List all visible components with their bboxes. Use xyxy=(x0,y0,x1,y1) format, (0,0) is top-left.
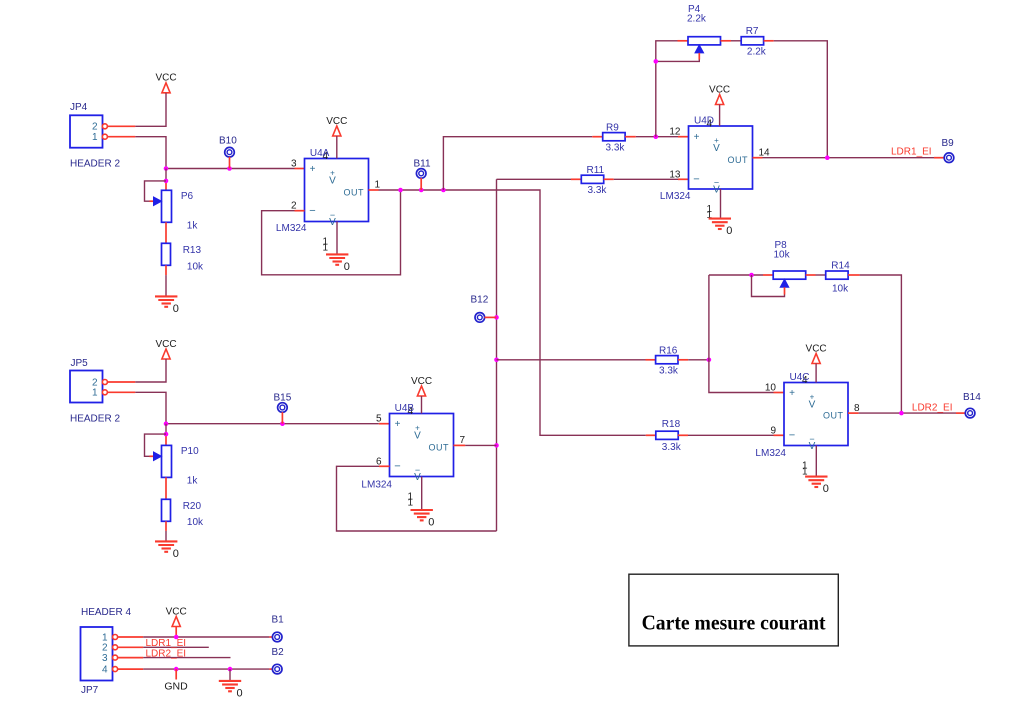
resistor R7 2.2k xyxy=(741,26,767,58)
wire U4B V- to ground xyxy=(421,477,423,511)
svg-text:VCC: VCC xyxy=(411,376,432,387)
svg-text:3: 3 xyxy=(291,159,297,170)
power VCC (JP5) xyxy=(155,339,176,359)
wire P8 wiper xyxy=(752,275,785,297)
svg-text:JP7: JP7 xyxy=(81,685,99,696)
wire JP5 pin2 to VCC xyxy=(107,359,166,382)
power VCC (JP4) xyxy=(155,73,176,93)
wire P10 wiper loop xyxy=(145,434,167,456)
ground 0 (JP7) xyxy=(219,681,243,700)
svg-text:B10: B10 xyxy=(219,135,237,146)
svg-text:R11: R11 xyxy=(587,165,605,176)
svg-text:+: + xyxy=(395,419,401,430)
svg-text:U4C: U4C xyxy=(790,372,810,383)
svg-text:LM324: LM324 xyxy=(660,191,691,202)
wire JP7 pin1 to B1 xyxy=(118,636,273,638)
junction U4A out / B11 xyxy=(419,188,424,193)
wire P10 to R20 xyxy=(165,477,167,499)
svg-text:3.3k: 3.3k xyxy=(606,143,626,154)
svg-text:U4A: U4A xyxy=(310,148,330,159)
connector JP4 (HEADER 2) xyxy=(70,102,120,169)
wire JP4 pin1 to node xyxy=(107,137,166,169)
wire node to P10 top xyxy=(165,424,167,446)
wire U4C V- to ground xyxy=(815,446,817,477)
resistor R11 3.3k xyxy=(581,165,607,196)
junction U4A out / R9 riser xyxy=(441,188,446,193)
wire main node to U4B pin5 xyxy=(166,423,390,425)
wire U4C output to B14 xyxy=(848,412,965,414)
svg-text:V: V xyxy=(414,472,421,483)
wire P6 to R13 xyxy=(165,222,167,243)
svg-text:V: V xyxy=(329,217,336,228)
resistor R14 10k xyxy=(826,261,850,295)
op-amp U4A LM324 xyxy=(276,148,381,253)
svg-text:LM324: LM324 xyxy=(276,223,307,234)
svg-text:−: − xyxy=(309,205,315,217)
svg-text:3.3k: 3.3k xyxy=(659,365,679,376)
junction ground symbol xyxy=(228,667,233,672)
resistor R16 3.3k xyxy=(656,345,679,376)
potentiometer P8 10k xyxy=(773,240,806,287)
svg-text:B15: B15 xyxy=(274,392,292,403)
svg-text:VCC: VCC xyxy=(326,116,347,127)
wire JP4 pin2 to VCC xyxy=(107,93,166,126)
svg-text:0: 0 xyxy=(726,225,732,237)
power VCC (U4D) xyxy=(709,84,730,104)
svg-text:OUT: OUT xyxy=(429,443,450,453)
svg-text:LDR1_EI: LDR1_EI xyxy=(891,146,932,157)
connector JP5 (HEADER 2) xyxy=(70,358,120,424)
wire VCC to U4B V+ xyxy=(421,396,423,414)
wire U4B output xyxy=(454,444,497,446)
connector JP7 (HEADER 4) xyxy=(81,607,132,696)
wire R14 to U4C output node xyxy=(848,275,901,413)
svg-text:0: 0 xyxy=(173,548,179,560)
svg-text:B1: B1 xyxy=(272,614,285,625)
ground 0 below U4D xyxy=(709,219,733,238)
svg-text:1: 1 xyxy=(375,180,381,191)
junction P4 wiper tap xyxy=(654,59,659,64)
net label LDR1_EI (JP7) xyxy=(146,638,187,649)
wire VCC to U4C V+ xyxy=(815,364,817,383)
svg-text:0: 0 xyxy=(428,517,434,529)
port B10 xyxy=(219,135,237,168)
wire riser to R9 xyxy=(443,137,602,190)
wire branch to U4C pin10 xyxy=(709,275,784,393)
svg-text:R13: R13 xyxy=(183,245,202,256)
svg-text:LDR2_EI: LDR2_EI xyxy=(912,403,953,414)
svg-text:VCC: VCC xyxy=(155,73,176,84)
wire R20 to ground xyxy=(165,521,167,541)
svg-text:V: V xyxy=(809,441,816,452)
svg-text:R14: R14 xyxy=(831,261,850,272)
svg-text:B12: B12 xyxy=(471,294,489,305)
wire R16 to U4C branch xyxy=(678,359,709,361)
junction P6 wiper tap xyxy=(164,179,169,184)
resistor R9 3.3k xyxy=(603,122,626,153)
svg-text:4: 4 xyxy=(102,664,108,675)
svg-text:V: V xyxy=(713,185,720,196)
wire node to P6 top xyxy=(165,169,167,191)
svg-text:8: 8 xyxy=(854,403,860,414)
wire R9 to U4D pin12 xyxy=(625,136,688,138)
svg-text:B2: B2 xyxy=(272,647,285,658)
svg-text:+: + xyxy=(789,388,795,399)
wire to U4D pin13 xyxy=(497,178,582,180)
wire R18 to U4C pin9 (drawn with U4A output net) xyxy=(678,434,784,436)
svg-text:3.3k: 3.3k xyxy=(662,442,682,453)
wire R7 to U4D output node xyxy=(764,41,828,158)
svg-text:2.2k: 2.2k xyxy=(687,14,707,25)
resistor R18 3.3k xyxy=(656,419,682,453)
svg-text:0: 0 xyxy=(344,261,350,273)
svg-text:5: 5 xyxy=(376,414,382,425)
wire VCC to U4D V+ xyxy=(719,105,721,127)
svg-text:VCC: VCC xyxy=(709,84,730,95)
wire U4A feedback pin2 loop xyxy=(262,190,401,275)
svg-text:LDR1_EI: LDR1_EI xyxy=(146,638,187,649)
svg-text:LM324: LM324 xyxy=(755,448,786,459)
svg-text:1: 1 xyxy=(92,388,98,399)
svg-text:1k: 1k xyxy=(187,220,199,231)
svg-text:+: + xyxy=(694,132,700,143)
svg-text:HEADER 4: HEADER 4 xyxy=(81,607,131,618)
svg-text:−: − xyxy=(693,174,699,186)
ground 0 below U4C xyxy=(805,477,829,496)
svg-text:B14: B14 xyxy=(963,392,981,403)
svg-text:R16: R16 xyxy=(659,345,678,356)
port B14 xyxy=(963,392,981,418)
ground 0 below R20 xyxy=(155,541,179,560)
svg-text:−: − xyxy=(789,430,795,442)
svg-text:1: 1 xyxy=(407,498,413,509)
svg-text:LM324: LM324 xyxy=(361,480,392,491)
wire to R16 xyxy=(497,359,656,361)
junction P10 wiper tap xyxy=(164,432,169,437)
svg-text:−: − xyxy=(394,461,400,473)
wire center bus (U4B out to R11/R16/B12) xyxy=(496,179,498,531)
potentiometer P10 1k xyxy=(154,445,200,486)
port B15 xyxy=(274,392,292,423)
wire JP7 pin4 to B2 xyxy=(118,668,273,670)
op-amp U4C LM324 xyxy=(755,372,860,477)
ground 0 below R13 xyxy=(155,296,179,315)
svg-text:R9: R9 xyxy=(606,122,619,133)
wire JP7 pin3 (LDR2_EI) xyxy=(118,657,231,659)
title box Carte mesure courant xyxy=(629,574,838,646)
junction R16 branch xyxy=(494,358,499,363)
svg-text:HEADER 2: HEADER 2 xyxy=(70,414,120,425)
svg-text:VCC: VCC xyxy=(155,339,176,350)
wire VCC to U4A V+ xyxy=(336,136,338,159)
svg-text:B11: B11 xyxy=(414,158,431,169)
junction at JP5/P10 node xyxy=(164,421,169,426)
svg-text:OUT: OUT xyxy=(728,155,749,165)
op-amp U4B LM324 xyxy=(361,403,465,509)
junction B12 xyxy=(494,315,499,320)
svg-text:P6: P6 xyxy=(181,191,194,202)
port B2 xyxy=(272,647,285,674)
junction U4D out / R7 xyxy=(825,155,830,160)
port B9 xyxy=(942,138,955,162)
svg-text:12: 12 xyxy=(669,127,681,138)
junction P8 wiper tap xyxy=(749,273,754,278)
svg-text:B9: B9 xyxy=(942,138,955,149)
svg-text:2.2k: 2.2k xyxy=(747,46,767,57)
svg-text:V: V xyxy=(414,431,421,442)
power VCC (JP7) xyxy=(166,606,187,626)
svg-text:VCC: VCC xyxy=(166,606,187,617)
op-amp U4D LM324 xyxy=(660,116,770,221)
wire JP7 pin2 (LDR1_EI) xyxy=(118,646,209,648)
resistor R20 10k xyxy=(162,499,205,528)
svg-text:10k: 10k xyxy=(832,284,849,295)
svg-text:10k: 10k xyxy=(187,517,204,528)
svg-text:LDR2_EI: LDR2_EI xyxy=(146,648,187,659)
potentiometer P4 2.2k xyxy=(687,4,721,53)
wire U4B feedback pin6 loop xyxy=(337,466,497,531)
svg-text:3.3k: 3.3k xyxy=(588,185,608,196)
svg-text:R7: R7 xyxy=(746,26,759,37)
svg-text:7: 7 xyxy=(460,435,466,446)
svg-text:U4D: U4D xyxy=(694,116,714,127)
resistor R13 10k xyxy=(162,243,205,272)
svg-text:V: V xyxy=(809,400,816,411)
svg-text:+: + xyxy=(310,164,316,175)
wire P4 left branch xyxy=(656,41,688,137)
port B1 xyxy=(272,614,285,641)
wire P4 wiper xyxy=(656,53,700,62)
junction GND stub xyxy=(174,667,179,672)
svg-text:10: 10 xyxy=(765,383,777,394)
svg-text:1: 1 xyxy=(322,243,328,254)
wire U4A V- to ground xyxy=(336,222,338,255)
power VCC (U4A) xyxy=(326,116,347,136)
svg-text:3: 3 xyxy=(102,653,108,664)
svg-text:2: 2 xyxy=(92,122,98,133)
junction at B10 xyxy=(227,166,232,171)
svg-text:0: 0 xyxy=(823,483,829,495)
svg-text:OUT: OUT xyxy=(823,410,844,420)
svg-text:P10: P10 xyxy=(181,446,199,457)
net label LDR1_EI xyxy=(891,146,932,157)
wire to ground symbol xyxy=(229,669,231,681)
svg-text:R18: R18 xyxy=(662,419,681,430)
svg-text:R20: R20 xyxy=(183,501,202,512)
wire U4D output to B9 xyxy=(753,157,945,159)
junction at B15 xyxy=(280,421,285,426)
wire P4 to R7 xyxy=(721,40,742,42)
svg-text:U4B: U4B xyxy=(395,403,415,414)
wire U4D V- to ground xyxy=(720,189,722,219)
svg-text:10k: 10k xyxy=(187,262,204,273)
svg-text:V: V xyxy=(713,143,720,154)
wire P8 left xyxy=(709,274,773,276)
svg-text:OUT: OUT xyxy=(344,187,365,197)
wire P8 to R14 xyxy=(806,274,826,276)
svg-text:13: 13 xyxy=(669,169,681,180)
svg-text:HEADER 2: HEADER 2 xyxy=(70,158,120,169)
ground 0 below U4B xyxy=(411,510,435,529)
power GND stub xyxy=(164,669,188,693)
svg-text:1: 1 xyxy=(92,132,98,143)
wire P6 wiper loop xyxy=(145,181,167,201)
svg-text:14: 14 xyxy=(759,147,771,158)
junction R9 / P4 branch xyxy=(654,134,659,139)
svg-text:JP5: JP5 xyxy=(71,358,89,369)
wire VCC stub to pin1 net xyxy=(175,627,177,638)
svg-text:1k: 1k xyxy=(187,476,199,487)
wire R11 to U4D pin13 xyxy=(604,178,689,180)
junction U4C out / R14 xyxy=(899,411,904,416)
svg-text:VCC: VCC xyxy=(806,343,827,354)
svg-text:0: 0 xyxy=(237,688,243,700)
svg-text:JP4: JP4 xyxy=(70,102,88,113)
net label LDR2_EI (JP7) xyxy=(146,648,187,659)
wire R13 to ground xyxy=(165,265,167,296)
junction VCC / pin1 xyxy=(174,635,179,640)
svg-text:9: 9 xyxy=(770,425,776,436)
port B11 xyxy=(414,158,431,190)
net label LDR2_EI xyxy=(912,403,953,414)
svg-text:Carte mesure courant: Carte mesure courant xyxy=(642,611,827,635)
wire main node to U4A pin3 xyxy=(166,168,305,170)
svg-text:V: V xyxy=(329,176,336,187)
junction at JP4/P6 node xyxy=(164,166,169,171)
junction U4A out / feedback xyxy=(398,188,403,193)
svg-text:GND: GND xyxy=(164,681,188,693)
svg-text:10k: 10k xyxy=(774,250,791,261)
svg-text:0: 0 xyxy=(173,303,179,315)
power VCC (U4C) xyxy=(806,343,827,363)
junction R16 / P8 branch xyxy=(707,358,712,363)
port B12 xyxy=(471,294,497,322)
power VCC (U4B) xyxy=(411,376,432,396)
junction U4B output xyxy=(494,443,499,448)
wire U4A output xyxy=(369,190,656,435)
potentiometer P6 1k xyxy=(154,190,199,231)
wire JP5 pin1 to node xyxy=(107,392,166,423)
ground 0 below U4A xyxy=(326,254,350,273)
